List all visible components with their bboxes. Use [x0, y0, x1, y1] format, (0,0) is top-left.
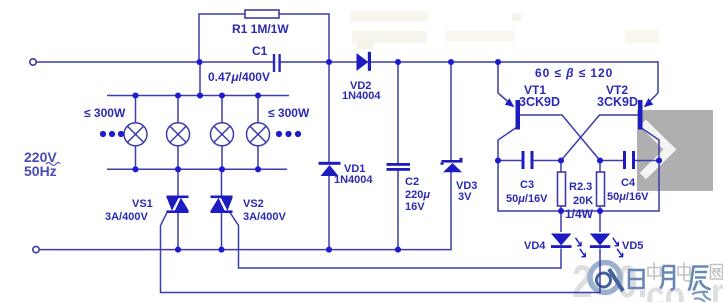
capacitor C2	[387, 163, 411, 171]
wire R3 bottom to VD5	[599, 206, 601, 232]
svg-text:1/4W: 1/4W	[565, 207, 594, 221]
wire VT1 emitter	[498, 62, 513, 106]
wire node line left	[498, 160, 522, 162]
svg-text:3A/400V: 3A/400V	[243, 211, 286, 223]
lamp 3	[211, 123, 234, 146]
node R2 top	[558, 157, 564, 163]
watermark char dian	[678, 263, 691, 282]
node R2 bottom	[558, 208, 564, 214]
wire lamp4 column	[257, 96, 259, 124]
lamp 2	[167, 123, 190, 146]
svg-text:m: m	[711, 270, 723, 302]
svg-text:R1 1M/1W: R1 1M/1W	[232, 22, 289, 36]
node R3 bottom	[597, 208, 603, 214]
svg-text:1N4004: 1N4004	[342, 90, 381, 102]
node bottom bus lamp1	[132, 166, 138, 172]
wire VT1 collector	[498, 127, 517, 161]
watermark play chevron	[646, 126, 670, 173]
ellipsis dots left	[100, 131, 124, 137]
svg-text:16V: 16V	[405, 201, 425, 213]
LED VD4 arrows	[576, 238, 586, 257]
node VT2 collector	[656, 157, 662, 163]
wire VD1 branch	[328, 62, 330, 162]
wire VS1 column	[177, 169, 179, 196]
svg-text:C2: C2	[405, 176, 419, 188]
wire lamp1 column	[135, 96, 137, 124]
svg-text:VS1: VS1	[132, 198, 153, 210]
svg-text:3CK9D: 3CK9D	[519, 95, 560, 109]
wire lamp2 column	[177, 96, 179, 124]
wire R1 loop	[199, 14, 329, 62]
lamp 1	[124, 123, 147, 146]
node bottom bus lamp2	[175, 166, 181, 172]
diode VD1	[319, 162, 341, 176]
svg-text:3V: 3V	[458, 191, 472, 203]
wire collector rail	[498, 161, 659, 212]
wire R2 top	[560, 161, 562, 173]
svg-text:C3: C3	[520, 179, 534, 191]
svg-text:50μ/16V: 50μ/16V	[607, 191, 649, 203]
svg-text:220μ: 220μ	[405, 189, 430, 201]
wire top right corner down	[657, 61, 659, 93]
wire lamp feed	[199, 62, 201, 96]
watermark char ri	[629, 270, 644, 288]
node top bus feed	[197, 92, 203, 98]
svg-text:≤ 300W: ≤ 300W	[84, 106, 126, 120]
node VT1 collector	[495, 157, 501, 163]
squiggle under 220V	[46, 163, 60, 166]
wire eraser C1 gap	[275, 60, 278, 64]
wire VS2 column	[221, 169, 223, 196]
resistor R1	[245, 10, 279, 18]
wire VD5 to VS1 gate line	[161, 213, 601, 293]
wire main top	[36, 61, 658, 63]
transistor VT2	[638, 98, 653, 129]
watermark logo ring	[590, 263, 620, 293]
node R3 top	[597, 157, 603, 163]
node main-lamp tap	[196, 59, 202, 65]
watermark smudges top	[350, 11, 659, 49]
capacitor C1	[274, 54, 280, 72]
wire C2 branch	[397, 62, 399, 163]
capacitor C3	[522, 151, 534, 169]
node R1 right	[326, 59, 332, 65]
watermark gray play box	[637, 110, 713, 191]
triac VS1	[167, 196, 189, 214]
wire lamp bottom bus	[107, 168, 287, 170]
terminal bottom	[33, 246, 39, 252]
watermark char zhong	[648, 263, 661, 281]
node bottom bus lamp4	[255, 166, 261, 172]
watermark blue script char	[692, 292, 711, 302]
node VT1 emitter top	[495, 59, 501, 65]
wire VT2 collector	[640, 127, 659, 161]
resistor R2	[558, 172, 566, 206]
wire VT2 emitter	[645, 93, 658, 106]
watermark char wang	[711, 265, 723, 280]
wire R3 top	[599, 161, 601, 173]
wire node line right	[600, 160, 623, 162]
resistor R3	[597, 172, 605, 206]
wire VD4 to VS2 gate line	[230, 213, 561, 269]
transistor VT1	[505, 98, 520, 129]
node bus C2	[395, 247, 401, 253]
node top bus lamp2	[175, 92, 181, 98]
svg-text:50Hz: 50Hz	[24, 163, 57, 179]
lamp 4	[247, 123, 270, 146]
capacitor C4	[623, 151, 635, 169]
watermark bottom	[572, 257, 723, 302]
ellipsis dots right	[276, 131, 301, 137]
wire VT1 base cross	[520, 115, 600, 161]
wire VT2 base cross	[561, 115, 638, 161]
wire lamp3 column	[221, 96, 223, 124]
svg-text:VS2: VS2	[243, 198, 264, 210]
svg-text:50μ/16V: 50μ/16V	[506, 193, 548, 205]
wire VD3 branch	[450, 62, 452, 160]
svg-text:20K: 20K	[573, 195, 593, 207]
LED VD5	[590, 234, 611, 249]
svg-text:3CK9D: 3CK9D	[597, 95, 638, 109]
triac VS2	[211, 196, 233, 214]
svg-text:0.47μ/400V: 0.47μ/400V	[208, 70, 270, 84]
svg-text:VD5: VD5	[622, 240, 643, 252]
svg-text:3A/400V: 3A/400V	[105, 211, 148, 223]
node C2 top	[395, 59, 401, 65]
wire main bottom bus	[36, 172, 451, 250]
svg-text:C4: C4	[621, 177, 636, 189]
wire R2 bottom to VD4	[560, 206, 562, 232]
watermark char chen	[689, 267, 711, 291]
watermark char yue	[660, 266, 674, 290]
svg-text:≤ 300W: ≤ 300W	[268, 106, 310, 120]
wire lamp top bus	[107, 95, 289, 97]
svg-text:VD4: VD4	[524, 240, 546, 252]
svg-text:C1: C1	[252, 44, 268, 58]
node VD3 top	[448, 59, 454, 65]
LED VD5 arrows	[613, 238, 623, 257]
node bottom bus lamp3	[219, 166, 225, 172]
zener VD3	[441, 158, 463, 173]
node top bus lamp3	[219, 92, 225, 98]
node bus VD1	[326, 247, 332, 253]
svg-text:R2.3: R2.3	[569, 181, 592, 193]
LED VD4	[551, 234, 572, 249]
node bus VS1	[175, 247, 181, 253]
node top bus lamp4	[255, 92, 261, 98]
node top bus lamp1	[132, 92, 138, 98]
svg-text:60 ≤ β ≤ 120: 60 ≤ β ≤ 120	[535, 66, 613, 80]
node bus VS2	[218, 247, 224, 253]
diode VD2	[357, 52, 372, 71]
svg-text:1N4004: 1N4004	[334, 174, 373, 186]
terminal top	[30, 59, 36, 65]
